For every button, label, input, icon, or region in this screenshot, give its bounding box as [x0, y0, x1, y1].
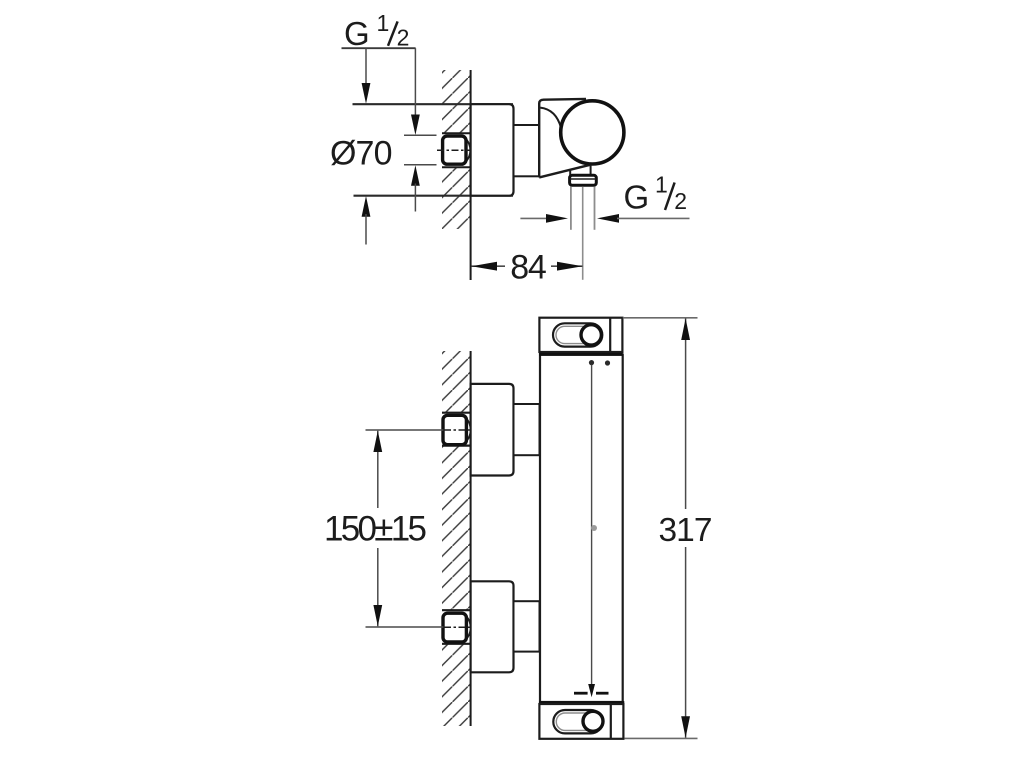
top cap — [539, 318, 622, 352]
upper recess top line — [442, 412, 471, 414]
150 dimension extension line upper — [366, 429, 444, 431]
svg-text:Ø70: Ø70 — [330, 135, 393, 173]
wall recess bottom line — [442, 166, 471, 168]
internal reference arrow — [588, 684, 595, 697]
upper wall union nut — [466, 418, 470, 441]
thermostat bar body — [540, 355, 623, 702]
wall hatching upper (above pipe recess) — [442, 70, 471, 133]
upper recess bottom line — [442, 445, 471, 447]
wall hatching above upper recess — [442, 351, 471, 413]
extension line bottom of escutcheon (O70 lower) — [354, 195, 514, 197]
upper connecting neck — [514, 404, 540, 455]
svg-text:317: 317 — [659, 512, 713, 549]
wall face line — [470, 70, 472, 280]
84 dimension line — [472, 265, 506, 267]
wall hatching below lower recess — [442, 644, 471, 726]
G1/2 leader upper arrow — [414, 48, 416, 117]
nut centre line (dash-dot) — [437, 149, 470, 151]
indicator dot right — [605, 360, 610, 365]
datum dash left — [574, 692, 588, 695]
bottom handle knob circle — [583, 711, 603, 731]
O70 dimension lower arrow — [362, 196, 371, 217]
svg-text:84: 84 — [510, 249, 547, 287]
150 dimension line — [377, 431, 379, 508]
wall union nut (side view) — [466, 139, 470, 162]
lower escutcheon flange — [471, 581, 514, 672]
svg-text:1: 1 — [655, 171, 668, 197]
G1/2 leader lower arrow — [411, 165, 420, 186]
body bottom slope line — [539, 165, 590, 178]
bottom cap / body bold separation — [539, 701, 624, 704]
svg-text:G: G — [624, 179, 650, 216]
lower nut centre line — [444, 626, 471, 628]
bottom cap inner band line — [610, 704, 612, 738]
wall face line — [470, 351, 472, 726]
lower wall union nut — [466, 616, 470, 639]
svg-text:1: 1 — [377, 10, 390, 36]
O70 dimension upper arrow — [365, 48, 367, 86]
datum dash right — [596, 692, 609, 695]
150 dimension extension line lower — [366, 626, 444, 628]
hose centre line — [582, 187, 584, 280]
bottom handle lever (stadium) — [553, 710, 602, 733]
upper nut centre line — [444, 429, 471, 431]
inner fillet curve of body — [540, 108, 562, 144]
wall hatching between recesses — [442, 446, 471, 610]
svg-text:150±15: 150±15 — [324, 509, 427, 548]
escutcheon flange (side view) — [471, 104, 514, 196]
G1/2 outlet dimension line right — [597, 214, 619, 223]
svg-text:G: G — [344, 15, 370, 52]
317 dimension line — [685, 318, 687, 509]
top handle knob circle — [581, 325, 601, 345]
wall recess top line — [442, 132, 471, 134]
connecting neck (side view) — [514, 125, 540, 176]
lower connecting neck — [514, 601, 540, 651]
outlet nut inner line — [570, 178, 596, 180]
top handle lever (stadium) — [553, 323, 602, 346]
svg-text:2: 2 — [674, 188, 687, 214]
top cap / body bold separation — [539, 353, 623, 356]
extension line top of escutcheon (O70 upper) — [353, 103, 514, 105]
nut extension line upper — [404, 134, 437, 136]
thermostat knob circle — [561, 101, 624, 164]
shower outlet stub — [569, 170, 571, 175]
svg-text:2: 2 — [397, 25, 410, 51]
label underline — [342, 47, 416, 49]
upper escutcheon flange — [471, 384, 514, 476]
317 extension line bottom — [624, 737, 697, 739]
indicator dot left — [589, 360, 594, 365]
top cap inner band line — [609, 318, 611, 352]
hose pipe right edge — [594, 187, 596, 230]
hose pipe left edge — [570, 187, 572, 230]
nut extension line lower — [404, 164, 437, 166]
317 extension line top — [623, 317, 698, 319]
lower recess bottom line — [442, 643, 471, 645]
outlet union nut — [570, 175, 597, 185]
bottom cap — [539, 704, 623, 739]
internal reference line — [591, 365, 593, 686]
mid grey dot — [591, 525, 597, 531]
wall hatching lower (below pipe recess) — [442, 167, 471, 229]
lower recess top line — [442, 609, 471, 611]
mixer body cone (side view) — [539, 99, 586, 177]
G1/2 outlet dimension line left — [520, 217, 548, 219]
